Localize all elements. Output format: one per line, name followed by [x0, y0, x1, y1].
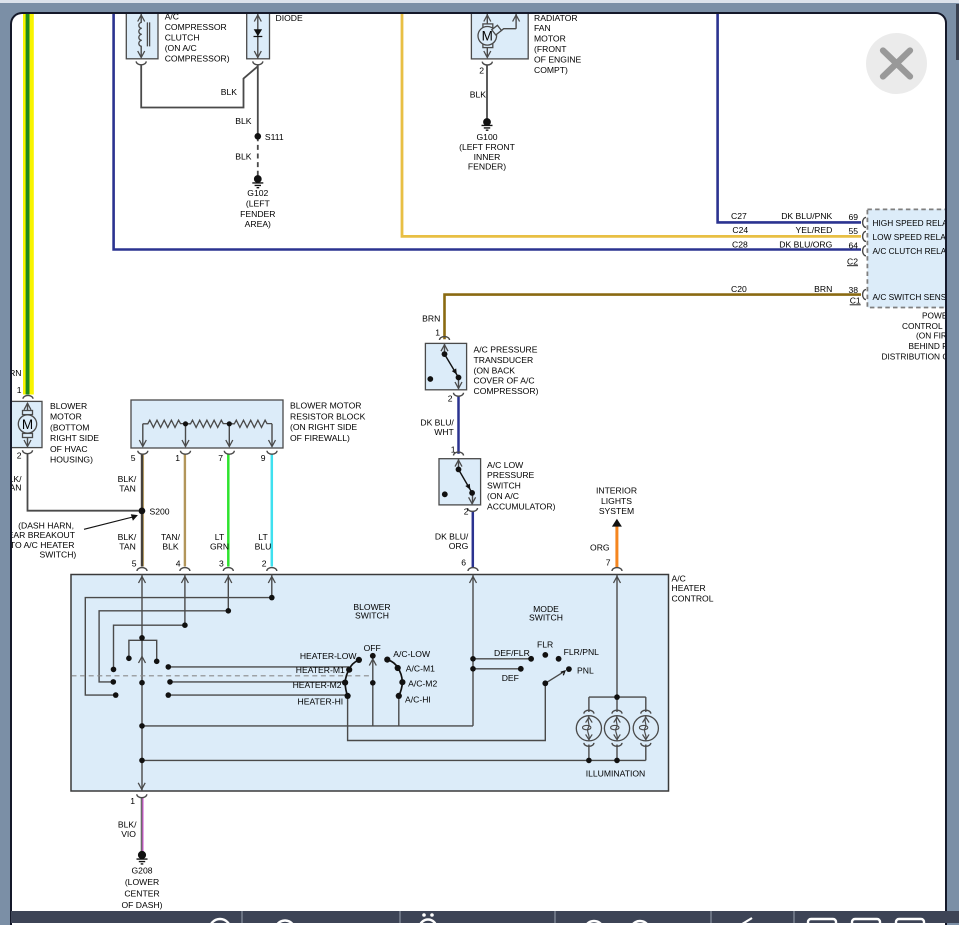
svg-text:BLK/: BLK/: [118, 532, 137, 542]
svg-text:DIODE: DIODE: [276, 13, 303, 23]
svg-text:C20: C20: [731, 284, 747, 294]
svg-text:HIGH SPEED RELAY: HIGH SPEED RELAY: [873, 218, 948, 228]
svg-text:OF ENGINE: OF ENGINE: [534, 54, 582, 64]
svg-text:(FRONT: (FRONT: [534, 44, 567, 54]
svg-text:(BOTTOM: (BOTTOM: [50, 422, 89, 432]
svg-text:COMPRESSOR): COMPRESSOR): [474, 386, 539, 396]
svg-text:7: 7: [218, 453, 223, 463]
svg-text:HEATER-M2: HEATER-M2: [293, 680, 342, 690]
svg-text:1: 1: [175, 453, 180, 463]
svg-text:TAN: TAN: [10, 483, 22, 493]
svg-text:BLK: BLK: [235, 116, 252, 126]
svg-text:DISTRIBUTION CE: DISTRIBUTION CE: [882, 351, 948, 361]
svg-text:A/C-M1: A/C-M1: [406, 663, 435, 673]
svg-text:G100: G100: [476, 132, 497, 142]
svg-text:TAN/: TAN/: [161, 532, 181, 542]
svg-text:1: 1: [451, 444, 456, 454]
svg-text:A/C-HI: A/C-HI: [405, 695, 431, 705]
svg-text:SWITCH: SWITCH: [355, 611, 389, 621]
svg-text:9: 9: [261, 453, 266, 463]
svg-text:DEF/FLR: DEF/FLR: [494, 648, 530, 658]
svg-text:CONTROL: CONTROL: [672, 594, 714, 604]
svg-text:BLK: BLK: [470, 90, 487, 100]
svg-text:LOW SPEED RELAY: LOW SPEED RELAY: [873, 232, 948, 242]
svg-text:SWITCH: SWITCH: [529, 613, 563, 623]
svg-text:5: 5: [132, 559, 137, 569]
svg-text:A/C: A/C: [165, 12, 179, 21]
svg-text:HEATER-LOW: HEATER-LOW: [300, 651, 358, 661]
svg-text:4: 4: [176, 559, 181, 569]
svg-text:EAR BREAKOUT: EAR BREAKOUT: [10, 530, 76, 540]
svg-text:OFF: OFF: [364, 643, 381, 653]
svg-text:2: 2: [464, 507, 469, 517]
svg-text:FENDER): FENDER): [468, 162, 506, 172]
svg-text:G208: G208: [131, 866, 152, 876]
svg-text:3: 3: [219, 559, 224, 569]
svg-text:C24: C24: [732, 225, 748, 235]
svg-text:A/C: A/C: [672, 574, 686, 584]
svg-text:1: 1: [435, 328, 440, 338]
svg-text:BLK: BLK: [235, 152, 252, 162]
svg-text:SWITCH: SWITCH: [487, 481, 521, 491]
svg-text:(ON A/C: (ON A/C: [487, 491, 519, 501]
svg-text:COMPRESSOR: COMPRESSOR: [165, 22, 227, 32]
svg-text:CLUTCH: CLUTCH: [165, 33, 200, 43]
svg-text:C27: C27: [731, 211, 747, 221]
svg-text:S111: S111: [265, 132, 284, 142]
svg-text:5: 5: [131, 453, 136, 463]
svg-text:6: 6: [461, 558, 466, 568]
svg-text:TRANSDUCER: TRANSDUCER: [474, 355, 534, 365]
svg-text:HEATER: HEATER: [672, 583, 706, 593]
svg-text:1: 1: [130, 796, 135, 806]
svg-text:BLK/: BLK/: [118, 820, 137, 830]
svg-text:OF DASH): OF DASH): [121, 900, 162, 910]
svg-text:2: 2: [262, 559, 267, 569]
svg-text:BLK/: BLK/: [118, 474, 137, 484]
svg-text:INTERIOR: INTERIOR: [596, 486, 637, 496]
svg-text:7: 7: [606, 558, 611, 568]
svg-text:TAN: TAN: [119, 484, 136, 494]
svg-text:A/C LOW: A/C LOW: [487, 460, 524, 470]
svg-text:GRN: GRN: [210, 542, 229, 552]
svg-text:SYSTEM: SYSTEM: [599, 506, 634, 516]
svg-text:INNER: INNER: [474, 152, 501, 162]
svg-text:C1: C1: [850, 295, 861, 305]
svg-text:(ON FIREWALL: (ON FIREWALL: [916, 330, 947, 340]
svg-text:CONTROL M: CONTROL M: [902, 321, 947, 331]
svg-text:SWITCH): SWITCH): [40, 550, 77, 560]
svg-text:MOTOR: MOTOR: [534, 34, 566, 44]
svg-text:FLR: FLR: [537, 639, 553, 649]
svg-text:(ON BACK: (ON BACK: [474, 365, 516, 375]
svg-text:YEL/RED: YEL/RED: [796, 225, 833, 235]
svg-text:PNL: PNL: [577, 665, 594, 675]
svg-text:2: 2: [479, 66, 484, 76]
svg-text:MOTOR: MOTOR: [50, 412, 82, 422]
svg-text:BEHIND P: BEHIND P: [909, 341, 948, 351]
svg-text:(LEFT: (LEFT: [246, 198, 271, 208]
svg-text:TO A/C HEATER: TO A/C HEATER: [10, 540, 75, 550]
svg-text:BLOWER MOTOR: BLOWER MOTOR: [290, 400, 361, 410]
svg-text:2: 2: [17, 451, 22, 461]
svg-text:C2: C2: [847, 256, 858, 266]
svg-text:CENTER: CENTER: [124, 889, 159, 899]
svg-text:(LEFT FRONT: (LEFT FRONT: [459, 142, 515, 152]
svg-text:TAN: TAN: [119, 542, 136, 552]
svg-text:(ON RIGHT SIDE: (ON RIGHT SIDE: [290, 422, 357, 432]
svg-text:DK BLU/ORG: DK BLU/ORG: [779, 240, 832, 250]
svg-text:A/C SWITCH SENSE: A/C SWITCH SENSE: [873, 292, 948, 302]
svg-text:PRESSURE: PRESSURE: [487, 470, 535, 480]
svg-text:A/C CLUTCH RELAY: A/C CLUTCH RELAY: [873, 246, 948, 256]
svg-text:(DASH HARN,: (DASH HARN,: [18, 521, 74, 531]
svg-text:VIO: VIO: [121, 829, 136, 839]
svg-text:FAN: FAN: [534, 23, 551, 33]
svg-text:1: 1: [17, 385, 22, 395]
svg-text:ORG: ORG: [449, 541, 469, 551]
svg-text:A/C-LOW: A/C-LOW: [393, 649, 431, 659]
svg-text:WHT: WHT: [434, 427, 454, 437]
svg-text:G102: G102: [247, 188, 268, 198]
svg-text:RESISTOR BLOCK: RESISTOR BLOCK: [290, 411, 366, 421]
svg-text:ILLUMINATION: ILLUMINATION: [586, 769, 646, 779]
svg-text:ACCUMULATOR): ACCUMULATOR): [487, 501, 556, 511]
svg-text:LIGHTS: LIGHTS: [601, 496, 632, 506]
svg-text:M: M: [482, 29, 493, 44]
svg-text:DK BLU/PNK: DK BLU/PNK: [781, 211, 832, 221]
svg-text:DK BLU/: DK BLU/: [420, 418, 454, 428]
svg-text:LT: LT: [215, 532, 225, 542]
svg-text:A/C PRESSURE: A/C PRESSURE: [474, 345, 538, 355]
svg-text:HEATER-HI: HEATER-HI: [298, 696, 344, 706]
svg-text:BRN: BRN: [814, 284, 832, 294]
svg-text:DK BLU/: DK BLU/: [435, 532, 469, 542]
svg-text:POWER: POWER: [922, 311, 947, 321]
svg-text:C28: C28: [732, 240, 748, 250]
svg-text:COMPT): COMPT): [534, 65, 568, 75]
svg-text:55: 55: [848, 226, 858, 236]
svg-text:(ON A/C: (ON A/C: [165, 43, 197, 53]
svg-text:(LOWER: (LOWER: [125, 877, 159, 887]
svg-text:S200: S200: [150, 507, 170, 517]
svg-text:2: 2: [448, 394, 453, 404]
svg-text:DEF: DEF: [502, 673, 519, 683]
svg-text:BLK: BLK: [162, 542, 179, 552]
svg-text:OF FIREWALL): OF FIREWALL): [290, 433, 350, 443]
svg-text:64: 64: [848, 240, 858, 250]
svg-text:LT: LT: [258, 532, 268, 542]
svg-text:BLU: BLU: [255, 542, 272, 552]
svg-text:HOUSING): HOUSING): [50, 455, 93, 465]
svg-text:AREA): AREA): [245, 219, 271, 229]
svg-text:M: M: [22, 417, 33, 432]
svg-text:RADIATOR: RADIATOR: [534, 13, 578, 23]
svg-text:COMPRESSOR): COMPRESSOR): [165, 54, 230, 64]
svg-text:38: 38: [848, 285, 858, 295]
svg-text:BRN: BRN: [422, 314, 440, 324]
svg-text:BLK: BLK: [221, 87, 238, 97]
svg-text:RIGHT SIDE: RIGHT SIDE: [50, 433, 99, 443]
svg-text:69: 69: [848, 212, 858, 222]
svg-text:HEATER-M1: HEATER-M1: [296, 665, 345, 675]
svg-text:OF HVAC: OF HVAC: [50, 444, 88, 454]
svg-text:FLR/PNL: FLR/PNL: [564, 647, 600, 657]
svg-text:ORG: ORG: [590, 543, 610, 553]
svg-text:GRN: GRN: [10, 368, 22, 378]
svg-text:BLOWER: BLOWER: [50, 401, 87, 411]
svg-text:FENDER: FENDER: [240, 209, 275, 219]
svg-text:A/C-M2: A/C-M2: [408, 678, 437, 688]
svg-text:COVER OF A/C: COVER OF A/C: [474, 376, 535, 386]
